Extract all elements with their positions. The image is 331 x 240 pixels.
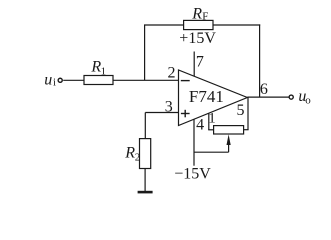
wire feedback top right segment — [213, 24, 260, 26]
svg-text:+15V: +15V — [179, 30, 216, 47]
svg-text:F741: F741 — [189, 87, 224, 106]
resistor R2 — [124, 139, 150, 169]
potentiometer body — [214, 126, 244, 134]
svg-text:2: 2 — [168, 64, 176, 81]
svg-text:u: u — [44, 71, 52, 88]
wire pin 3 down to R2 — [144, 113, 146, 139]
svg-text:1: 1 — [208, 111, 216, 127]
op-amp U1 F741 triangle — [179, 70, 248, 126]
svg-text:4: 4 — [196, 116, 204, 133]
wire feedback left vertical from node A — [144, 25, 146, 80]
wire pin 4 to wiper horizontal — [194, 151, 229, 153]
wire R2 to ground — [144, 169, 146, 192]
wire feedback right vertical to output node — [259, 24, 261, 97]
node ui input terminal — [44, 71, 62, 88]
svg-text:6: 6 — [260, 81, 268, 98]
resistor RF — [184, 6, 213, 30]
svg-text:7: 7 — [196, 54, 204, 71]
wire feedback top left segment — [144, 24, 184, 26]
wire R1 to inverting input pin 2 — [113, 79, 179, 81]
wire pin 4 negative supply — [193, 119, 195, 166]
wire pin 3 horizontal — [145, 112, 178, 114]
svg-text:i: i — [53, 76, 56, 88]
svg-text:R: R — [191, 6, 202, 23]
wire output pin 6 — [247, 96, 289, 98]
potentiometer wiper arrow — [227, 134, 231, 152]
resistor R1 — [84, 58, 113, 84]
svg-text:R: R — [124, 144, 135, 161]
minus sign inverting input — [181, 80, 190, 82]
node uo output terminal — [289, 88, 311, 106]
svg-text:1: 1 — [101, 65, 107, 77]
svg-text:−15V: −15V — [174, 165, 211, 182]
wire pin 5 offset null — [244, 97, 249, 129]
svg-text:o: o — [305, 94, 311, 106]
wire pin 7 positive supply — [193, 52, 195, 77]
ground — [138, 191, 153, 194]
plus sign non-inverting input — [181, 110, 190, 118]
svg-text:2: 2 — [135, 151, 141, 163]
svg-text:F: F — [202, 11, 208, 23]
wire ui to R1 — [63, 79, 84, 81]
wire pin 1 offset null — [208, 113, 213, 130]
svg-text:5: 5 — [237, 102, 245, 119]
